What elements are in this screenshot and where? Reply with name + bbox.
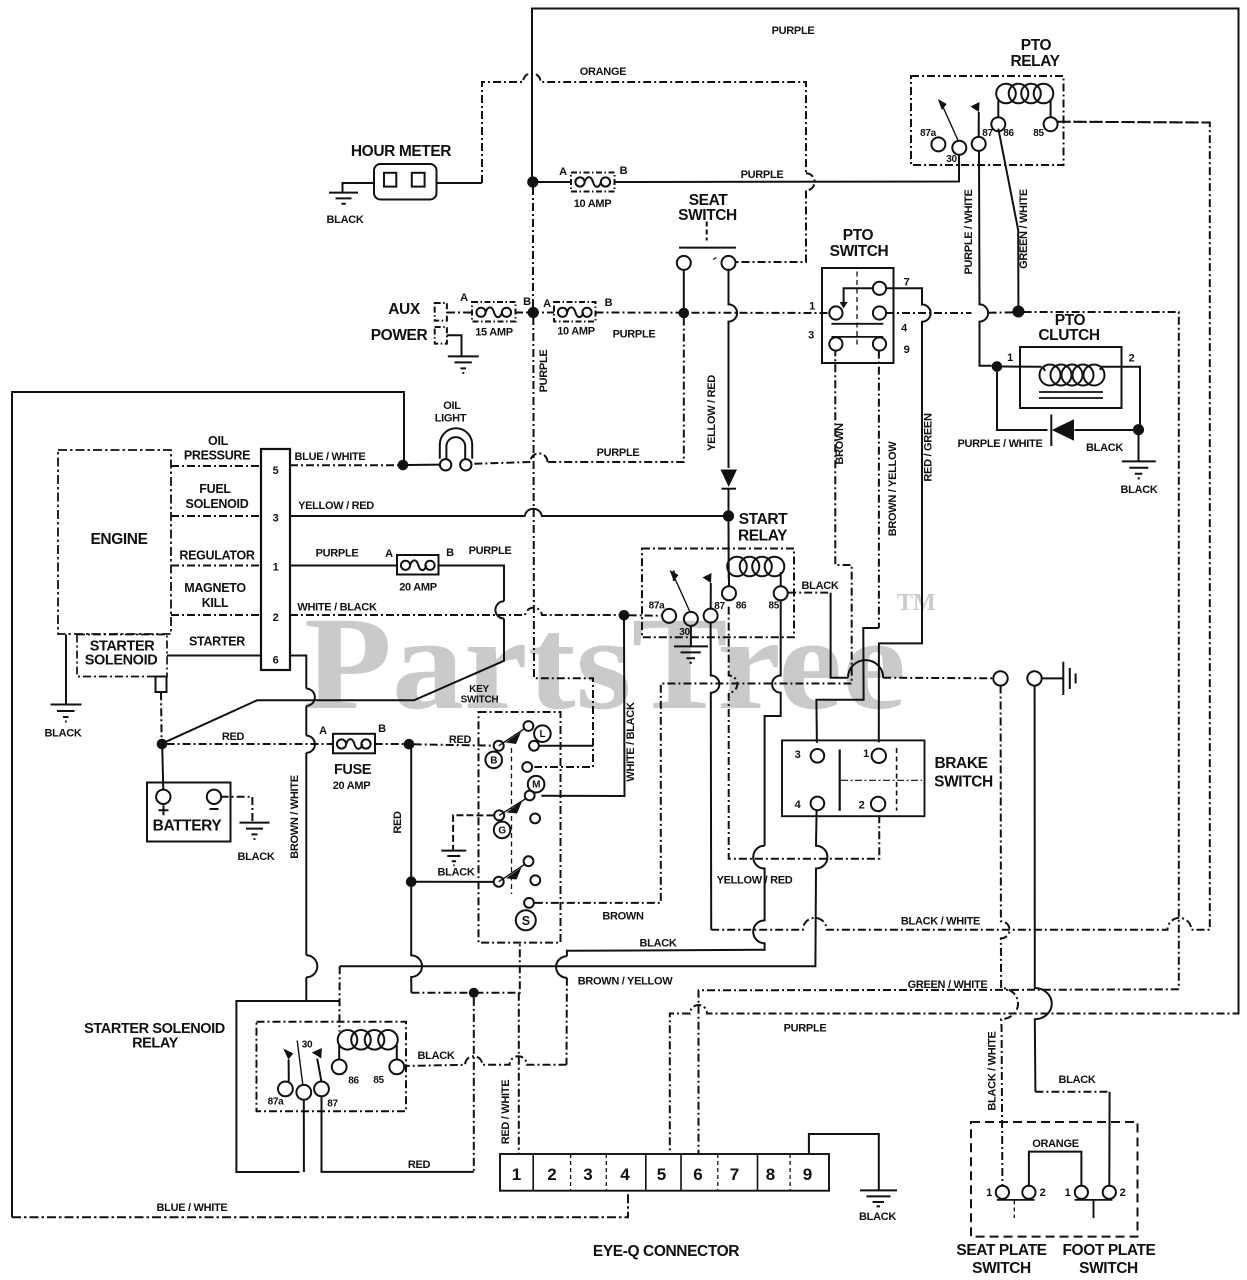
wire brown: key switch S to PTO switch 3 — [535, 351, 852, 903]
svg-text:PURPLE: PURPLE — [613, 329, 656, 341]
aux connector squares — [435, 303, 447, 321]
svg-text:B: B — [620, 165, 628, 177]
wire blue/white row y465 — [290, 464, 398, 466]
svg-text:B: B — [378, 723, 386, 735]
svg-text:ORANGE: ORANGE — [1032, 1138, 1078, 1150]
ground clutch — [1122, 461, 1156, 478]
svg-text:PURPLE: PURPLE — [538, 350, 550, 393]
svg-text:20 AMP: 20 AMP — [399, 582, 437, 594]
svg-text:2: 2 — [1129, 353, 1135, 365]
svg-text:PTO: PTO — [843, 227, 874, 244]
svg-text:9: 9 — [904, 344, 910, 356]
svg-text:SOLENOID: SOLENOID — [186, 497, 249, 511]
ground engine — [51, 705, 82, 722]
wire regulator purple row via 20amp fuse down diagonal to battery — [290, 566, 504, 602]
wire clutch terminal 1 to coil and diode — [997, 367, 1048, 431]
node dot green/white clutch — [1012, 306, 1024, 318]
svg-text:2: 2 — [273, 612, 279, 624]
svg-text:87: 87 — [327, 1099, 338, 1110]
svg-text:3: 3 — [808, 330, 814, 342]
svg-text:BLACK: BLACK — [238, 851, 275, 863]
svg-text:RED: RED — [222, 731, 245, 743]
wire red/white down to EYE-Q pin 2 — [518, 993, 520, 1154]
wire brown/white vertical down to starter solenoid relay 30 detour — [306, 689, 315, 706]
engine box — [58, 450, 171, 634]
svg-text:3: 3 — [795, 749, 801, 761]
oil light LP1 — [440, 428, 472, 470]
svg-text:5: 5 — [273, 465, 279, 477]
seat switch SW1 — [677, 222, 736, 270]
svg-text:PTO: PTO — [1021, 37, 1052, 54]
start relay K1 — [642, 549, 794, 638]
starter solenoid box — [77, 635, 167, 677]
wire clutch 2 lead down to ground dot — [1075, 367, 1141, 461]
svg-text:BROWN: BROWN — [602, 911, 644, 923]
ground battery — [240, 823, 270, 839]
engine row lines — [171, 466, 261, 615]
svg-text:PURPLE / WHITE: PURPLE / WHITE — [963, 189, 975, 274]
svg-text:PRESSURE: PRESSURE — [184, 449, 250, 463]
svg-text:SEAT PLATE: SEAT PLATE — [956, 1242, 1046, 1259]
node dot red/white branch — [469, 988, 479, 998]
wire orange: hour meter up over and down to seat switch — [437, 182, 483, 184]
svg-text:BROWN / YELLOW: BROWN / YELLOW — [887, 441, 899, 537]
svg-text:LIGHT: LIGHT — [435, 413, 467, 425]
terminal strip — [261, 449, 290, 670]
node dot blue/white oil light — [398, 460, 409, 471]
svg-text:7: 7 — [730, 1165, 739, 1184]
wire ssr 86 corner from brown/white — [306, 1000, 339, 1002]
node dot purple aux fuses — [528, 307, 539, 318]
svg-text:BLACK: BLACK — [1086, 442, 1123, 454]
svg-text:4: 4 — [620, 1165, 630, 1184]
starter solenoid relay K3 — [257, 1022, 407, 1112]
svg-text:SWITCH: SWITCH — [678, 207, 737, 224]
svg-text:B: B — [446, 547, 454, 559]
connector circles pair — [993, 671, 1007, 685]
svg-text:PURPLE: PURPLE — [784, 1023, 827, 1035]
wire purple bottom row to EYE-Q pin 5 — [670, 1005, 1239, 1154]
svg-text:3: 3 — [583, 1165, 592, 1184]
svg-text:AUX: AUX — [388, 301, 421, 318]
wire coil feed down from black row to ssr 86 — [338, 966, 340, 1031]
wire starter solenoid stub down to battery junction — [160, 692, 163, 739]
brake switch SW3 — [782, 740, 925, 816]
wire brown/yellow: PTO switch 9 to brake 3 — [878, 351, 880, 628]
svg-text:BLACK: BLACK — [327, 214, 364, 226]
svg-text:RED: RED — [392, 811, 404, 834]
svg-text:CLUTCH: CLUTCH — [1038, 327, 1100, 344]
svg-text:WHITE / BLACK: WHITE / BLACK — [625, 702, 637, 782]
svg-text:87: 87 — [982, 128, 993, 139]
svg-text:YELLOW / RED: YELLOW / RED — [298, 500, 374, 512]
svg-text:1: 1 — [273, 562, 279, 574]
wire green/white: PTO relay 86 down to clutch junction — [998, 129, 1018, 307]
wire yellow/red junction down to start relay coil 86 — [728, 522, 730, 580]
node dot battery red — [157, 739, 168, 750]
wire aux power square to ground — [447, 335, 462, 356]
battery B1 — [147, 783, 231, 842]
wire black start relay 85 right to connector circles — [788, 592, 830, 594]
svg-text:RED / WHITE: RED / WHITE — [500, 1080, 512, 1145]
fuse F4 20A regulator — [397, 555, 439, 575]
ground key switch — [441, 851, 466, 866]
svg-text:1: 1 — [1065, 1187, 1071, 1199]
svg-text:PURPLE: PURPLE — [597, 447, 640, 459]
svg-text:B: B — [605, 297, 613, 309]
svg-text:BLACK / WHITE: BLACK / WHITE — [901, 916, 980, 928]
svg-text:FUEL: FUEL — [199, 482, 231, 496]
svg-text:BLACK: BLACK — [640, 938, 677, 950]
svg-text:PURPLE: PURPLE — [741, 169, 784, 181]
wire brake 4 down to black row y966 — [340, 810, 828, 966]
wire battery minus to ground — [221, 797, 253, 822]
diode clutch — [1050, 415, 1052, 447]
svg-text:SWITCH: SWITCH — [461, 695, 499, 706]
svg-text:RED: RED — [449, 734, 472, 746]
svg-text:87a: 87a — [920, 128, 937, 139]
svg-text:1: 1 — [863, 748, 869, 760]
fuse F5 20A main — [333, 734, 375, 754]
svg-text:M: M — [532, 780, 540, 791]
svg-text:85: 85 — [769, 601, 780, 612]
node dot yellow/red start relay — [723, 510, 734, 521]
svg-text:9: 9 — [803, 1165, 812, 1184]
svg-text:30: 30 — [679, 627, 690, 638]
svg-text:8: 8 — [766, 1165, 775, 1184]
svg-text:30: 30 — [302, 1040, 313, 1051]
svg-text:BLACK: BLACK — [1121, 484, 1158, 496]
fuse F2 15A — [472, 302, 516, 322]
svg-text:PURPLE: PURPLE — [772, 25, 815, 37]
wire pin9 to ground — [809, 1134, 879, 1190]
wire white/black junction down to key switch M — [541, 620, 624, 796]
wire red/green: PTO switch 7 to brake 1 — [879, 288, 931, 742]
svg-text:86: 86 — [348, 1076, 359, 1087]
svg-text:BROWN / YELLOW: BROWN / YELLOW — [578, 976, 674, 988]
svg-text:6: 6 — [273, 655, 279, 667]
svg-text:EYE-Q CONNECTOR: EYE-Q CONNECTOR — [593, 1243, 739, 1260]
svg-text:A: A — [319, 725, 327, 737]
wire red branch down to red row — [473, 998, 475, 1172]
wire yellow/red row y516 strip to start relay — [290, 509, 723, 516]
svg-text:BROWN / WHITE: BROWN / WHITE — [289, 775, 301, 858]
watermark PartsTree — [304, 589, 936, 737]
svg-text:2: 2 — [1040, 1187, 1046, 1199]
svg-text:5: 5 — [657, 1165, 666, 1184]
ground aux power — [448, 356, 479, 373]
svg-text:SWITCH: SWITCH — [830, 243, 889, 260]
svg-text:BROWN: BROWN — [834, 423, 846, 465]
wire red row y744 battery to fuse to key switch B — [167, 744, 494, 746]
svg-text:87a: 87a — [649, 601, 666, 612]
svg-text:PURPLE: PURPLE — [469, 545, 512, 557]
fuse F1 10A — [571, 173, 615, 192]
svg-text:A: A — [460, 292, 468, 304]
svg-text:3: 3 — [273, 513, 279, 525]
wire seat switch right terminal down to start relay junction (yellow/red) — [729, 270, 738, 468]
svg-text:GREEN / WHITE: GREEN / WHITE — [1018, 189, 1030, 269]
svg-text:BLACK: BLACK — [1059, 1074, 1096, 1086]
svg-text:1: 1 — [986, 1187, 992, 1199]
wire black/white connector circle down to seat plate 1 — [1001, 686, 1018, 1186]
wire engine bottom left to ground — [65, 635, 67, 705]
svg-text:87: 87 — [714, 601, 725, 612]
wire seat switch left terminal down to oil light — [683, 270, 685, 308]
svg-text:B: B — [490, 755, 497, 766]
svg-text:FOOT PLATE: FOOT PLATE — [1062, 1242, 1155, 1259]
wire purple clutch row y313 right side — [886, 311, 1013, 314]
wire orange bracket seat2 to foot1 — [1029, 1152, 1082, 1186]
wire red vertical from fuse junction down — [410, 749, 412, 877]
svg-text:YELLOW / RED: YELLOW / RED — [706, 375, 718, 451]
svg-text:10 AMP: 10 AMP — [574, 198, 612, 210]
svg-text:SOLENOID: SOLENOID — [85, 653, 158, 669]
svg-text:PURPLE / WHITE: PURPLE / WHITE — [957, 438, 1042, 450]
svg-text:BLACK: BLACK — [45, 728, 82, 740]
svg-text:2: 2 — [547, 1165, 556, 1184]
svg-text:1: 1 — [1007, 352, 1013, 364]
ground start relay 30 — [674, 646, 708, 662]
node dot seat purple — [679, 308, 690, 319]
svg-text:KEY: KEY — [469, 684, 489, 695]
svg-text:L: L — [539, 729, 545, 740]
svg-text:KILL: KILL — [202, 596, 229, 610]
svg-text:86: 86 — [736, 601, 747, 612]
wire green/white row y990 to EYE-Q pin 6 — [699, 989, 1179, 1154]
wire key switch G row to ground — [453, 815, 493, 850]
svg-text:15 AMP: 15 AMP — [475, 327, 513, 339]
svg-text:TM: TM — [897, 590, 936, 616]
wire starter row y655 strip to brown/white vertical — [167, 656, 306, 689]
ground hour meter — [329, 193, 358, 204]
wire PTO relay 85 to right border — [1058, 121, 1210, 124]
svg-text:BLACK / WHITE: BLACK / WHITE — [987, 1031, 999, 1110]
svg-text:ORANGE: ORANGE — [580, 66, 626, 78]
svg-text:85: 85 — [1033, 128, 1044, 139]
wire start relay 85 down long net to ssr 85 — [765, 601, 781, 846]
wire purple row y182 fuse to PTO relay 30 — [538, 154, 959, 182]
node dot clutch 1 — [992, 361, 1003, 372]
svg-text:FUSE: FUSE — [334, 762, 372, 778]
svg-text:RELAY: RELAY — [132, 1036, 179, 1052]
ground sideways right of connector circles — [1063, 662, 1075, 695]
svg-text:BLUE / WHITE: BLUE / WHITE — [295, 451, 366, 463]
svg-text:S: S — [522, 914, 530, 928]
svg-text:A: A — [559, 166, 567, 178]
svg-text:START: START — [739, 511, 788, 528]
wire hour meter left to ground — [343, 183, 375, 192]
node dot white/black 87a — [619, 610, 630, 621]
svg-text:20 AMP: 20 AMP — [333, 780, 371, 792]
wire start relay 87a stub — [673, 571, 675, 582]
node dot purple/hourmeter fuse — [527, 176, 538, 187]
seat/foot plate switch box — [971, 1122, 1138, 1237]
wire purple vertical through fuse dots down to key switch B — [532, 187, 534, 308]
wire purple top loop: fuse node to right border down to bottom purple row — [532, 9, 1239, 1012]
wire key switch L contact to purple vertical — [539, 745, 593, 747]
svg-text:REGULATOR: REGULATOR — [179, 549, 255, 563]
svg-text:SWITCH: SWITCH — [972, 1260, 1031, 1277]
wire start relay 30 to ground — [690, 626, 692, 646]
svg-text:RELAY: RELAY — [1010, 53, 1060, 70]
svg-text:HOUR METER: HOUR METER — [351, 143, 451, 160]
PTO switch SW2 — [822, 268, 894, 363]
ground pin9 — [860, 1190, 897, 1206]
node dot key switch red branch — [406, 876, 417, 887]
svg-text:7: 7 — [904, 277, 910, 289]
wire left border blue/white: oil junction around to EYE-Q pin 4 — [12, 392, 404, 1217]
svg-text:BLACK: BLACK — [802, 580, 839, 592]
svg-text:85: 85 — [373, 1075, 384, 1086]
svg-text:PURPLE: PURPLE — [316, 548, 359, 560]
svg-text:BLACK: BLACK — [418, 1050, 455, 1062]
svg-text:SWITCH: SWITCH — [934, 774, 993, 791]
svg-text:BATTERY: BATTERY — [153, 818, 223, 835]
svg-text:RED: RED — [408, 1159, 431, 1171]
EYE-Q connector CN1 — [500, 1154, 829, 1191]
svg-text:MAGNETO: MAGNETO — [184, 581, 246, 595]
svg-text:A: A — [543, 298, 551, 310]
svg-text:1: 1 — [809, 301, 815, 313]
arrow diode into start relay — [721, 470, 738, 488]
key switch KS1 — [479, 712, 561, 943]
svg-text:10 AMP: 10 AMP — [557, 326, 595, 338]
svg-text:OIL: OIL — [443, 400, 461, 412]
PTO relay K2 — [911, 76, 1064, 165]
wire start relay 86 down to brake 2 — [729, 607, 880, 859]
svg-text:ENGINE: ENGINE — [90, 531, 147, 548]
wire white/black row y615 strip to start relay 87a — [290, 608, 619, 615]
PTO clutch CL1 — [1020, 347, 1122, 408]
svg-text:RED / GREEN: RED / GREEN — [923, 413, 935, 482]
node dot clutch ground — [1133, 424, 1144, 435]
svg-text:30: 30 — [946, 154, 957, 165]
svg-text:2: 2 — [1120, 1187, 1126, 1199]
svg-text:OIL: OIL — [208, 434, 229, 448]
svg-text:GREEN / WHITE: GREEN / WHITE — [908, 979, 988, 991]
wire ssr 30 stem — [303, 1100, 305, 1172]
wire red row y1172 ssr 87 — [322, 1096, 474, 1172]
svg-text:BLACK: BLACK — [438, 867, 475, 879]
svg-text:YELLOW / RED: YELLOW / RED — [717, 875, 793, 887]
svg-text:1: 1 — [512, 1165, 521, 1184]
svg-text:SWITCH: SWITCH — [1079, 1260, 1138, 1277]
wire connector circle 2 down to foot plate 2 (black) — [1035, 686, 1052, 1092]
svg-text:WHITE / BLACK: WHITE / BLACK — [297, 602, 377, 614]
wire battery plus up — [162, 749, 163, 791]
svg-text:86: 86 — [1003, 128, 1014, 139]
fuse F3 10A — [554, 302, 596, 322]
svg-text:BLACK: BLACK — [859, 1211, 896, 1223]
svg-text:BLUE / WHITE: BLUE / WHITE — [157, 1202, 228, 1214]
svg-text:6: 6 — [693, 1165, 702, 1184]
wire purple aux row y312.5 — [447, 312, 829, 315]
node dot fuse B red — [404, 739, 415, 750]
svg-text:G: G — [498, 825, 506, 836]
svg-text:STARTER: STARTER — [189, 635, 245, 649]
svg-text:A: A — [385, 548, 393, 560]
svg-text:RELAY: RELAY — [738, 528, 788, 545]
svg-text:B: B — [523, 296, 531, 308]
wire black/white: start relay 87 down right to PTO relay 85 — [711, 623, 720, 930]
svg-text:87a: 87a — [268, 1097, 285, 1108]
svg-text:POWER: POWER — [371, 327, 428, 344]
wire purple/white: PTO relay 87 down to clutch 1 — [979, 151, 992, 366]
wire key switch third arm to red junction — [416, 881, 494, 883]
svg-text:2: 2 — [859, 800, 865, 812]
svg-text:BRAKE: BRAKE — [934, 755, 987, 772]
hour meter HM1 — [374, 164, 437, 200]
